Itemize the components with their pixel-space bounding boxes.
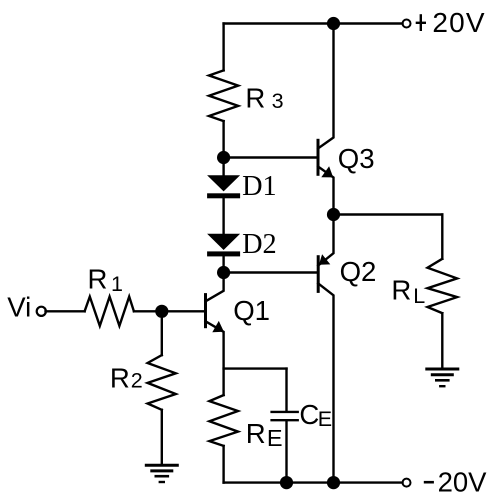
svg-text:D1: D1 (242, 171, 277, 202)
svg-text:Q2: Q2 (340, 256, 377, 287)
svg-text:Vi: Vi (7, 292, 31, 323)
svg-text:R: R (110, 363, 130, 394)
svg-text:3: 3 (272, 89, 284, 113)
svg-text:Q3: Q3 (338, 143, 375, 174)
svg-text:20V: 20V (432, 7, 485, 38)
svg-text:R: R (88, 264, 108, 295)
svg-text:1: 1 (111, 272, 123, 296)
svg-text:R: R (245, 82, 265, 113)
svg-text:20V: 20V (438, 467, 488, 498)
svg-text:Q1: Q1 (233, 295, 270, 326)
svg-text:E: E (318, 407, 332, 431)
svg-text:L: L (413, 284, 425, 308)
svg-text:R: R (246, 418, 266, 449)
svg-text:2: 2 (131, 369, 143, 393)
svg-text:E: E (267, 425, 283, 451)
svg-text:D2: D2 (242, 229, 277, 260)
svg-text:C: C (299, 399, 319, 430)
svg-text:R: R (391, 275, 411, 306)
